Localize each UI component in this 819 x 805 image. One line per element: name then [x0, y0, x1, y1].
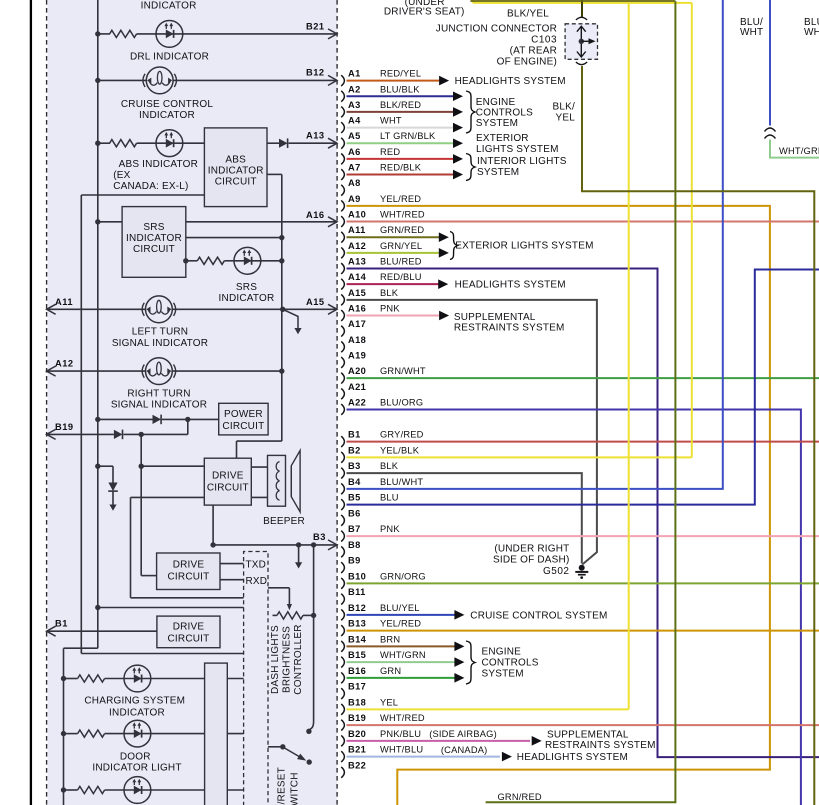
svg-text:GRN/RED: GRN/RED	[380, 225, 424, 235]
svg-text:CONTROLS: CONTROLS	[482, 658, 539, 669]
svg-text:GRN/RED: GRN/RED	[498, 792, 542, 802]
svg-text:PNK: PNK	[380, 524, 400, 534]
junction dot 298/B3	[296, 542, 301, 547]
pin A16	[341, 310, 344, 321]
wire A20 GRN/WHT	[347, 377, 819, 379]
svg-text:RED/BLU: RED/BLU	[380, 272, 422, 282]
svg-text:LT GRN/BLK: LT GRN/BLK	[380, 131, 436, 141]
svg-text:B19: B19	[55, 422, 74, 432]
svg-text:WHT: WHT	[380, 116, 402, 126]
svg-text:LEFT TURN: LEFT TURN	[132, 327, 188, 338]
pin B20	[341, 735, 344, 746]
switch blade trip/reset	[285, 748, 303, 759]
svg-text:INTERIOR LIGHTS: INTERIOR LIGHTS	[477, 156, 567, 167]
wire B4 BLU/WHT	[347, 0, 723, 489]
wire SRS LED row	[186, 260, 198, 262]
svg-text:DRL INDICATOR: DRL INDICATOR	[130, 52, 209, 63]
wire B12 BLU/YEL	[347, 614, 456, 616]
brace engine controls A2-A4	[466, 91, 475, 133]
svg-text:(UNDER RIGHT: (UNDER RIGHT	[494, 544, 569, 555]
junction dot bus/ABS	[95, 141, 100, 146]
svg-text:PNK/BLU: PNK/BLU	[380, 729, 421, 739]
box DRIVE CIRCUIT 1	[204, 458, 251, 505]
svg-text:A12: A12	[348, 241, 366, 251]
wire B20 PNK/BLU	[347, 740, 531, 742]
wire bus branch to diode down	[98, 465, 113, 467]
junction dot switch left	[280, 744, 285, 749]
junction dot bus/607	[95, 605, 100, 610]
svg-text:B19: B19	[348, 713, 366, 723]
continuation stub below B3	[298, 545, 300, 563]
svg-text:B2: B2	[348, 445, 361, 455]
pin A6	[341, 154, 344, 165]
svg-text:RED/BLK: RED/BLK	[380, 163, 422, 173]
svg-text:RXD: RXD	[246, 576, 268, 587]
pin A5	[341, 138, 344, 149]
svg-text:A12: A12	[55, 359, 74, 369]
svg-text:A13: A13	[306, 131, 325, 141]
wire vertical 188	[187, 419, 189, 434]
wire B7 PNK	[347, 535, 819, 537]
svg-text:CRUISE CONTROL: CRUISE CONTROL	[121, 99, 213, 110]
svg-text:RED: RED	[380, 147, 400, 157]
wire YEL net B2/B18	[347, 708, 629, 710]
svg-text:B6: B6	[348, 508, 361, 518]
junction dot pot/313	[311, 613, 316, 618]
svg-text:BEEPER: BEEPER	[263, 516, 305, 527]
wire WHT/GRN	[770, 140, 819, 158]
svg-text:GRY/RED: GRY/RED	[380, 430, 424, 440]
junction dot bus/cruise	[95, 78, 100, 83]
svg-text:YEL: YEL	[380, 697, 398, 707]
pin A13	[341, 263, 344, 274]
wire B1 row	[47, 630, 157, 632]
junction dot DOOR	[61, 731, 66, 736]
svg-text:DRIVE: DRIVE	[212, 471, 244, 482]
wire B14	[347, 645, 456, 647]
resistor THIRD	[78, 786, 105, 793]
box POWER CIRCUIT	[219, 403, 268, 435]
svg-text:G502: G502	[543, 566, 569, 577]
pin A14	[341, 279, 344, 290]
svg-text:B3: B3	[313, 532, 326, 542]
wire A4	[347, 127, 454, 129]
svg-text:WHT/RED: WHT/RED	[380, 713, 425, 723]
wire cruise indicator row	[98, 79, 147, 81]
wire row 466 to drive1	[141, 465, 204, 467]
svg-text:BLK: BLK	[380, 288, 399, 298]
wire B3 BLK to ground	[347, 473, 582, 563]
svg-text:RED/YEL: RED/YEL	[380, 69, 421, 79]
svg-text:C103: C103	[531, 35, 557, 46]
pin A7	[341, 169, 344, 180]
svg-text:A10: A10	[348, 210, 366, 220]
svg-text:B1: B1	[55, 619, 68, 629]
svg-text:GRN/YEL: GRN/YEL	[380, 241, 422, 251]
svg-text:WHT: WHT	[804, 27, 819, 38]
wire ABS indicator row	[98, 142, 110, 144]
wire right turn row (A12)	[47, 370, 146, 372]
svg-text:A5: A5	[348, 131, 361, 141]
bulb RIGHT TURN SIGNAL INDICATOR	[142, 358, 176, 385]
svg-text:B15: B15	[348, 650, 366, 660]
svg-text:SIGNAL INDICATOR: SIGNAL INDICATOR	[112, 338, 208, 349]
junction dot THIRD	[61, 787, 66, 792]
svg-text:A13: A13	[348, 257, 366, 267]
LED THIRD indicator	[124, 777, 151, 804]
wire SRS box mid output	[186, 237, 282, 239]
pin B9	[341, 562, 344, 573]
pin B11	[341, 594, 344, 605]
wire switch stub	[268, 746, 281, 748]
cluster right dashed border (connector face)	[336, 0, 338, 805]
svg-text:HEADLIGHTS SYSTEM: HEADLIGHTS SYSTEM	[517, 752, 628, 763]
wire B10 GRN/ORG	[347, 582, 819, 584]
wire drive1 to beeper coil	[251, 466, 267, 468]
pin A15	[341, 294, 344, 305]
wire A16 PNK	[347, 315, 441, 317]
arrow to pin B1 (left)	[47, 626, 56, 636]
arrow to pin A13	[328, 138, 337, 148]
beeper coil box	[268, 455, 286, 506]
svg-text:A3: A3	[348, 100, 361, 110]
wire ABS box to diode	[267, 142, 279, 144]
pin A8	[341, 185, 344, 196]
svg-text:EXTERIOR: EXTERIOR	[476, 133, 529, 144]
continuation arrow below A15 node	[283, 309, 298, 329]
junction dot 188/419	[185, 417, 190, 422]
svg-text:BLK/RED: BLK/RED	[380, 100, 421, 110]
pin B19	[341, 720, 344, 731]
svg-text:INDICATOR: INDICATOR	[126, 233, 182, 244]
wire B16	[347, 677, 456, 679]
svg-text:B18: B18	[348, 697, 366, 707]
svg-text:BLU/BLK: BLU/BLK	[380, 84, 420, 94]
svg-text:CHARGING SYSTEM: CHARGING SYSTEM	[84, 696, 185, 707]
svg-text:A1: A1	[348, 69, 361, 79]
svg-text:GRN/WHT: GRN/WHT	[380, 366, 426, 376]
wire A6	[347, 158, 454, 160]
svg-text:A17: A17	[348, 319, 366, 329]
instrument cluster panel background	[48, 0, 337, 805]
pin A19	[341, 357, 344, 368]
pin B17	[341, 688, 344, 699]
svg-text:B22: B22	[348, 760, 366, 770]
wire A10 WHT/RED	[347, 221, 819, 223]
pin B7	[341, 531, 344, 542]
svg-text:B16: B16	[348, 666, 366, 676]
wire bus row 607	[98, 607, 244, 609]
svg-text:OF ENGINE): OF ENGINE)	[497, 57, 557, 68]
wire B19 row	[47, 433, 114, 435]
arrow to pin B3	[328, 540, 337, 550]
svg-text:B8: B8	[348, 540, 361, 550]
svg-text:A14: A14	[348, 272, 367, 282]
pin B10	[341, 578, 344, 589]
pin B15	[341, 657, 344, 668]
svg-text:(CANADA): (CANADA)	[441, 745, 488, 755]
svg-text:SUPPLEMENTAL: SUPPLEMENTAL	[547, 730, 629, 741]
wire diode row to power circuit	[98, 418, 153, 420]
svg-text:JUNCTION CONNECTOR: JUNCTION CONNECTOR	[436, 24, 557, 35]
wire A14 RED/BLU	[347, 283, 439, 285]
pin A17	[341, 326, 344, 337]
box DRIVE CIRCUIT 2	[157, 553, 220, 590]
svg-text:SRS: SRS	[236, 282, 257, 293]
svg-text:DOOR: DOOR	[120, 751, 151, 762]
svg-text:CONTROLLER: CONTROLLER	[293, 624, 304, 694]
svg-text:WHT: WHT	[740, 27, 763, 38]
svg-text:A8: A8	[348, 178, 361, 188]
svg-text:A9: A9	[348, 194, 361, 204]
wire A1 RED/YEL	[347, 80, 441, 82]
svg-text:HEADLIGHTS SYSTEM: HEADLIGHTS SYSTEM	[455, 280, 566, 291]
wire A3	[347, 111, 454, 113]
svg-text:GRN: GRN	[380, 666, 401, 676]
cluster left dashed border	[46, 0, 48, 805]
wire bus bottom jog	[64, 647, 98, 649]
pin A9	[341, 200, 344, 211]
wire B15	[347, 661, 456, 663]
pin A3	[341, 107, 344, 118]
arrow to pin A15	[328, 304, 337, 314]
wire ABS box lower output	[267, 173, 282, 175]
svg-text:B7: B7	[348, 524, 361, 534]
svg-text:B14: B14	[348, 634, 367, 644]
svg-text:A6: A6	[348, 147, 361, 157]
svg-text:A18: A18	[348, 335, 366, 345]
LED SRS INDICATOR	[234, 247, 261, 274]
svg-text:YEL/BLK: YEL/BLK	[380, 445, 420, 455]
svg-text:YEL/RED: YEL/RED	[380, 194, 421, 204]
svg-text:WHT/BLU: WHT/BLU	[380, 745, 423, 755]
svg-text:A11: A11	[348, 225, 366, 235]
junction dot bus/466	[95, 464, 100, 469]
wire A2	[347, 95, 454, 97]
brace interior lights A6-A7	[466, 154, 475, 181]
wire BLU/WHT stub top right	[769, 0, 771, 126]
svg-text:B10: B10	[348, 571, 366, 581]
wire vertical 141	[140, 434, 142, 575]
svg-text:DRIVE: DRIVE	[173, 560, 205, 571]
svg-text:RESTRAINTS SYSTEM: RESTRAINTS SYSTEM	[454, 322, 565, 333]
wire A7	[347, 174, 454, 176]
svg-text:SUPPLEMENTAL: SUPPLEMENTAL	[454, 312, 536, 323]
svg-text:DRIVER'S SEAT): DRIVER'S SEAT)	[384, 7, 465, 18]
svg-text:BRN: BRN	[380, 634, 400, 644]
wire A15 BLK to ground	[347, 300, 597, 565]
junction connector C103	[565, 24, 597, 60]
pin B6	[341, 515, 344, 526]
junction dot 282/A15	[280, 307, 285, 312]
svg-text:A4: A4	[348, 116, 361, 126]
wire TXD stub	[220, 563, 244, 565]
svg-text:A16: A16	[306, 210, 325, 220]
pin B16	[341, 672, 344, 683]
wire drive1 down to B3 row	[212, 505, 214, 545]
svg-text:WHT/GRN: WHT/GRN	[779, 146, 819, 156]
pin A11	[341, 232, 344, 243]
brace exterior lights A11-A12	[450, 232, 458, 260]
svg-text:A16: A16	[348, 304, 366, 314]
svg-text:B9: B9	[348, 556, 361, 566]
LED CHARGING indicator	[124, 665, 151, 692]
svg-text:SRS: SRS	[143, 222, 164, 233]
wire indicator row THIRD	[64, 789, 78, 791]
resistor DRL	[110, 30, 137, 37]
svg-text:A15: A15	[306, 297, 325, 307]
brace engine controls B14-B16	[466, 641, 475, 684]
svg-text:(AT REAR: (AT REAR	[510, 46, 557, 57]
svg-text:B5: B5	[348, 493, 361, 503]
junction dot 141/466	[139, 464, 144, 469]
resistor ABS	[110, 140, 137, 147]
wire GRN/RED vertical + bottom	[486, 1, 676, 802]
bulb CRUISE CONTROL INDICATOR	[143, 67, 177, 94]
svg-text:A21: A21	[348, 382, 366, 392]
pin B12	[341, 609, 344, 620]
svg-text:(SIDE AIRBAG): (SIDE AIRBAG)	[429, 729, 497, 739]
junction dot 282/237	[279, 235, 284, 240]
svg-text:PNK: PNK	[380, 304, 400, 314]
svg-text:A7: A7	[348, 163, 361, 173]
svg-text:CRUISE CONTROL SYSTEM: CRUISE CONTROL SYSTEM	[470, 611, 607, 622]
svg-text:B21: B21	[306, 22, 325, 32]
svg-text:BLK/: BLK/	[553, 102, 576, 113]
wire A11 GRN/RED	[347, 236, 440, 238]
svg-text:POWER: POWER	[224, 409, 263, 420]
svg-text:SWITCH: SWITCH	[290, 772, 301, 805]
svg-text:SYSTEM: SYSTEM	[482, 669, 524, 680]
box ABS INDICATOR CIRCUIT	[204, 128, 267, 207]
svg-text:SIDE OF DASH): SIDE OF DASH)	[493, 554, 570, 565]
svg-text:ABS: ABS	[225, 155, 246, 166]
junction dot 282/261	[279, 258, 284, 263]
wire B19 WHT/RED	[347, 724, 819, 726]
svg-text:RESTRAINTS SYSTEM: RESTRAINTS SYSTEM	[545, 740, 656, 751]
arrow to pin B19 (left)	[47, 429, 56, 439]
svg-text:ENGINE: ENGINE	[482, 646, 522, 657]
arrow to pin A12 (left)	[47, 366, 56, 376]
svg-text:INDICATOR: INDICATOR	[141, 1, 197, 12]
wire rail2 row 653.5	[80, 648, 82, 654]
svg-text:INDICATOR LIGHT: INDICATOR LIGHT	[92, 763, 181, 774]
svg-text:TXD: TXD	[246, 560, 267, 571]
resistor dash lights brightness	[273, 614, 278, 616]
wire pot wiper feed	[268, 587, 289, 589]
wire row 597.8	[131, 597, 244, 599]
svg-text:TRIP/RESET: TRIP/RESET	[277, 767, 288, 805]
wire RXD stub	[220, 579, 244, 581]
junction dot switch upper	[306, 729, 311, 734]
svg-text:YEL/RED: YEL/RED	[380, 619, 421, 629]
junction dot 141/B19	[139, 432, 144, 437]
svg-text:BLU/WHT: BLU/WHT	[380, 477, 423, 487]
svg-text:BLU/YEL: BLU/YEL	[380, 603, 420, 613]
junction dot CHARGING	[61, 676, 66, 681]
svg-text:B20: B20	[348, 729, 366, 739]
pin B1	[341, 436, 344, 447]
box DRIVE CIRCUIT 3	[157, 616, 220, 648]
pin B5	[341, 499, 344, 510]
svg-text:A22: A22	[348, 397, 366, 407]
svg-text:BLK: BLK	[380, 461, 399, 471]
wire olive top horizontal	[470, 0, 675, 2]
pin A12	[341, 247, 344, 258]
ground G502	[579, 565, 585, 571]
bus wire (power rail)	[97, 0, 99, 648]
svg-text:DRIVE: DRIVE	[173, 622, 205, 633]
wire A13 BLU/RED long	[347, 269, 819, 758]
svg-text:CIRCUIT: CIRCUIT	[207, 483, 249, 494]
wire row 497 to drive1	[131, 496, 205, 498]
pin B14	[341, 641, 344, 652]
svg-text:A11: A11	[55, 297, 73, 307]
svg-text:CIRCUIT: CIRCUIT	[215, 177, 257, 188]
svg-text:B13: B13	[348, 619, 366, 629]
junction dot 282/A12	[279, 368, 284, 373]
resistor DOOR	[78, 730, 105, 737]
svg-text:A19: A19	[348, 350, 366, 360]
wire A9 YEL/RED long	[347, 206, 770, 805]
svg-text:B4: B4	[348, 477, 361, 487]
wire bus to SRS box	[98, 221, 122, 223]
svg-text:YEL: YEL	[555, 113, 575, 124]
resistor CHARGING	[78, 675, 105, 682]
svg-text:SYSTEM: SYSTEM	[477, 167, 519, 178]
wire B3 row	[213, 544, 337, 546]
svg-text:ENGINE: ENGINE	[476, 97, 516, 108]
LED DRL INDICATOR	[156, 21, 183, 48]
wire B1 GRY/RED	[347, 441, 819, 443]
pin A21	[341, 388, 344, 399]
pin B4	[341, 483, 344, 494]
pin B21	[341, 751, 344, 762]
svg-text:CONTROLS: CONTROLS	[476, 108, 533, 119]
diode B19 row	[114, 430, 123, 439]
svg-text:B11: B11	[348, 587, 366, 597]
pin B3	[341, 468, 344, 479]
wire left turn row (A11 to A15)	[47, 308, 146, 310]
svg-text:ABS INDICATOR: ABS INDICATOR	[119, 159, 198, 170]
svg-text:B3: B3	[348, 461, 361, 471]
bulb LEFT TURN SIGNAL INDICATOR	[142, 296, 176, 323]
page border line	[30, 0, 32, 805]
wire indicator row DOOR	[64, 733, 78, 735]
wire A5	[347, 142, 454, 144]
box SRS INDICATOR CIRCUIT	[122, 207, 186, 278]
pin B2	[341, 452, 344, 463]
junction dot drive1/B3	[210, 542, 215, 547]
svg-text:WHT/RED: WHT/RED	[380, 210, 425, 220]
pin B8	[341, 546, 344, 557]
svg-text:A20: A20	[348, 366, 366, 376]
arrow to pin A16	[328, 217, 337, 227]
svg-text:CANADA: EX-L): CANADA: EX-L)	[113, 181, 188, 192]
wire SRS box to A16	[186, 221, 337, 223]
beeper horn	[291, 451, 300, 512]
junction dot bus/DRL	[95, 31, 100, 36]
pin A10	[341, 216, 344, 227]
pin B18	[341, 704, 344, 715]
svg-text:CIRCUIT: CIRCUIT	[222, 421, 264, 432]
junction dot bus/SRS	[95, 219, 100, 224]
break arcs	[765, 128, 776, 132]
wire BLK/YEL from C103	[581, 0, 583, 17]
wire B21 WHT/BLU	[347, 756, 501, 758]
arrow to pin B21	[328, 29, 337, 39]
wire vertical 130.5	[130, 497, 132, 597]
